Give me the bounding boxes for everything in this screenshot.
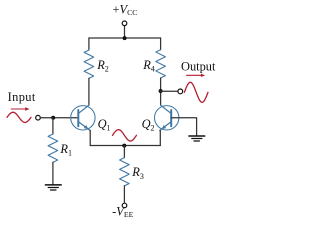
transistor Q2 bbox=[155, 105, 179, 130]
resistor R4 bbox=[156, 50, 166, 78]
output sine wave (red) bbox=[184, 82, 208, 102]
ground left bbox=[45, 185, 61, 190]
node input junction bbox=[51, 116, 55, 120]
wire R3 to VEE terminal bbox=[123, 186, 125, 203]
node VCC junction bbox=[123, 36, 127, 40]
node emitter junction bbox=[122, 144, 126, 148]
node output junction bbox=[159, 89, 163, 93]
resistor R3 bbox=[120, 158, 130, 186]
wire R4 top stub bbox=[160, 38, 162, 50]
resistor R2 bbox=[84, 50, 94, 78]
wire to output terminal bbox=[161, 90, 178, 92]
wire Q1 emitter down bbox=[89, 130, 91, 145]
wire Q2 base to ground bbox=[171, 118, 196, 136]
wire VCC stub bbox=[124, 26, 126, 38]
wire R2 to Q1 collector bbox=[88, 78, 90, 105]
wire bottom rail emitters bbox=[90, 145, 160, 147]
input sine wave (red) bbox=[7, 112, 31, 122]
terminal output bbox=[178, 89, 183, 94]
ground right bbox=[189, 136, 205, 141]
middle sine wave (red) bbox=[113, 130, 137, 141]
output arrow (red) bbox=[187, 74, 202, 76]
terminal +VCC bbox=[122, 21, 127, 26]
terminal input bbox=[36, 115, 41, 120]
wire junction to R3 bbox=[123, 146, 125, 158]
transistor Q1 bbox=[71, 105, 95, 130]
terminal -VEE bbox=[122, 203, 127, 208]
wire input to Q1 base bbox=[40, 117, 77, 119]
resistor R1 bbox=[48, 134, 58, 162]
wire R4 to Q2 collector bbox=[160, 78, 162, 105]
svg-text:Input: Input bbox=[8, 90, 36, 104]
svg-text:Output: Output bbox=[181, 59, 216, 73]
wire Q2 emitter down bbox=[159, 130, 161, 145]
wire junction to R1 bbox=[52, 118, 54, 134]
input arrow (red) bbox=[11, 108, 26, 110]
wire R2 top stub bbox=[88, 38, 90, 50]
wire top rail VCC bbox=[89, 37, 161, 39]
wire R1 to ground bbox=[52, 162, 54, 184]
